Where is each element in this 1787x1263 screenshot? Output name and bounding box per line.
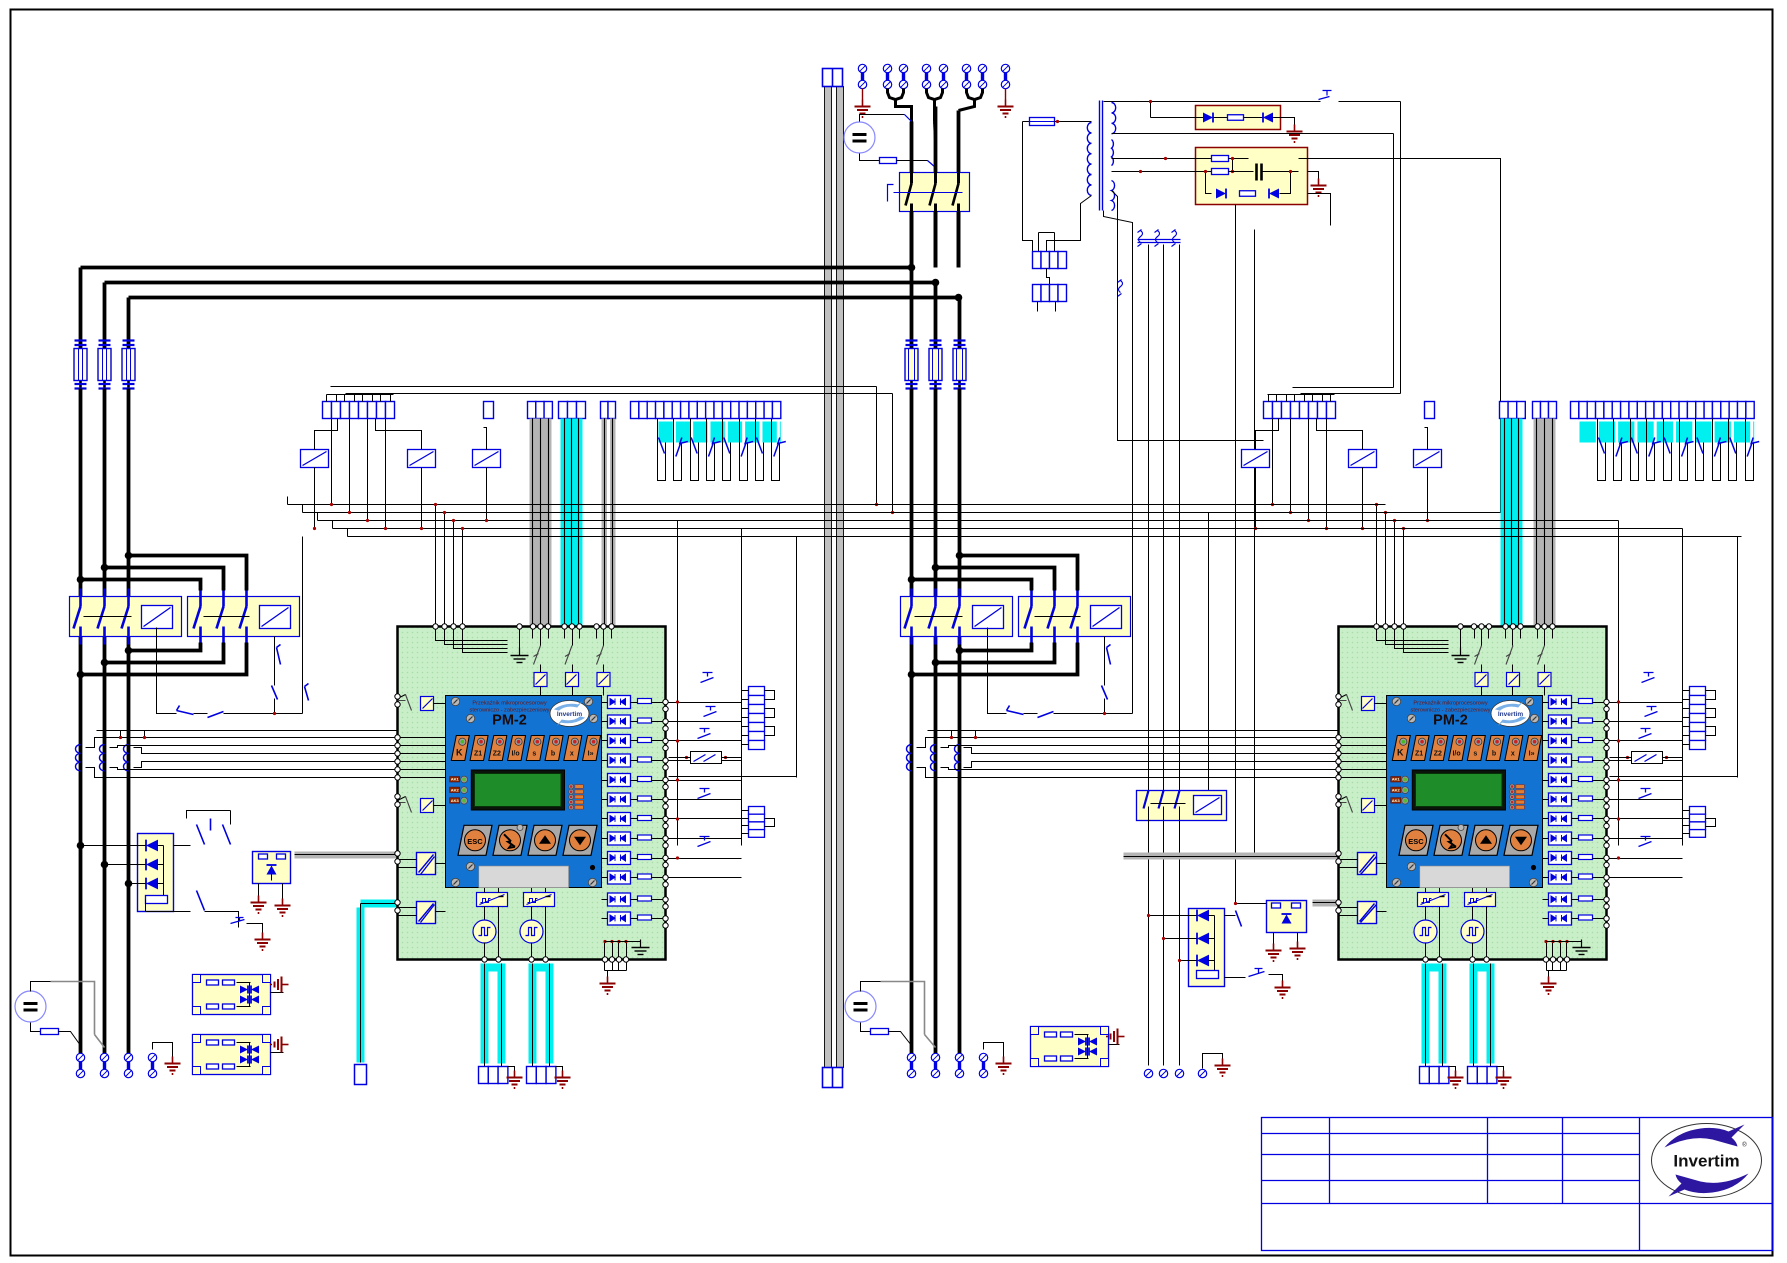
board top pin <box>1542 624 1547 629</box>
board top pin <box>594 624 599 629</box>
relay K2 <box>408 450 436 468</box>
wire O12 <box>1543 918 1549 920</box>
optocoupler O7 <box>608 813 631 826</box>
board top wire 2 <box>445 627 508 645</box>
optocoupler O8 <box>608 832 631 845</box>
board left pin <box>395 794 400 799</box>
optocoupler O4 <box>1549 754 1572 767</box>
panel label window <box>479 866 569 888</box>
board left pin <box>395 775 400 780</box>
board top wire 3 <box>1395 627 1449 649</box>
wire Z2 in2 <box>1112 171 1212 173</box>
left bundle cyan <box>559 402 568 419</box>
resistor RO12 <box>1579 915 1593 920</box>
key KB3 <box>1469 825 1503 855</box>
board right pin <box>1604 816 1609 821</box>
wire DAC2 feed <box>1472 888 1474 893</box>
diode DD3 <box>1197 955 1209 967</box>
svg-text:®: ® <box>1742 1142 1747 1149</box>
wire tie L1 <box>81 266 912 270</box>
wire O2 <box>602 721 608 723</box>
svg-text:b: b <box>551 751 555 758</box>
resistor RO6 <box>638 796 652 801</box>
junction node L2 <box>932 279 940 287</box>
board bundle wires <box>1474 627 1476 639</box>
resistor RZ1 <box>1228 115 1244 121</box>
bus-section breaker QA <box>70 597 182 637</box>
button B1 <box>451 736 469 761</box>
wire CT3 sec bottom <box>964 762 1339 768</box>
svg-text:I»: I» <box>588 751 594 758</box>
wire bypass bottom 1 <box>960 643 1032 651</box>
external switch T <box>698 789 711 799</box>
board top pin <box>1486 624 1491 629</box>
panel LED AK1 <box>450 777 460 783</box>
wire DAC1 feed <box>484 888 486 893</box>
board top pin <box>1458 624 1463 629</box>
diode DD3 <box>146 878 158 890</box>
board top pin <box>1479 624 1484 629</box>
board top pin <box>562 624 567 629</box>
earth Z2 <box>1308 172 1319 179</box>
terminal XT1 <box>1144 1069 1152 1077</box>
board bottom pins <box>529 957 534 962</box>
stack2 wire 4 <box>1683 833 1690 835</box>
external stub 3 <box>669 740 742 742</box>
wire O10 <box>602 877 608 879</box>
resistor RO2 <box>1579 718 1593 723</box>
breaker Q0 trip linkage <box>888 185 894 202</box>
right opto earths <box>1273 933 1275 944</box>
key indicator <box>1458 825 1464 831</box>
loop switch LS9 <box>1729 419 1737 481</box>
board gnd cluster <box>604 942 606 960</box>
terminal X4 <box>922 64 930 88</box>
terminal X5 <box>939 64 947 88</box>
board analog iso AI2 <box>417 902 436 924</box>
wire K2 drop <box>421 468 423 529</box>
optocoupler O12 <box>1549 912 1572 925</box>
panel LED R5 <box>569 805 574 810</box>
board iso U1 <box>1475 673 1488 687</box>
wire CT1 sec top <box>917 738 1339 748</box>
wire above-connector bus L <box>331 386 877 388</box>
terminal X7 <box>978 64 986 88</box>
stack1 wire 3 <box>1683 708 1690 710</box>
wire K2 drop <box>1362 468 1364 529</box>
loop switch LS8 <box>772 419 780 481</box>
button B6 <box>545 736 563 761</box>
wire bus to board pin 1 <box>435 505 437 627</box>
right gray cable long <box>1124 853 1339 860</box>
panel LCD display <box>1412 770 1505 810</box>
svg-text:Przekaźnik mikroprocesorowy: Przekaźnik mikroprocesorowy <box>472 701 546 707</box>
panel logo <box>1491 701 1530 727</box>
stack1 wire 4 <box>742 717 749 719</box>
stack2 hook <box>765 819 775 827</box>
external stub 1 <box>669 702 742 704</box>
cyan output bundle <box>1470 964 1495 972</box>
wire XT1 stub <box>1047 269 1050 285</box>
wire O11 <box>1543 899 1549 901</box>
wire CA drop 3 <box>367 419 369 521</box>
cyan output earth <box>1497 1067 1504 1071</box>
external switch T <box>1642 673 1655 683</box>
resistor RO7 <box>1579 816 1593 821</box>
board top pin <box>569 624 574 629</box>
external long wire y150 <box>669 776 797 778</box>
terminal XB3 <box>955 1053 963 1077</box>
board ct wire 5 <box>1339 769 1387 771</box>
optocoupler O5 <box>608 774 631 787</box>
left diode lower switch <box>146 900 191 912</box>
board left pin <box>395 759 400 764</box>
terminal XB4 <box>148 1053 156 1077</box>
svg-text:Z2: Z2 <box>493 751 501 758</box>
transformer T1 primary <box>1087 123 1091 196</box>
wire O8 <box>1543 838 1549 840</box>
wire DD join <box>1214 916 1216 961</box>
aux relay box QC right <box>1137 791 1227 821</box>
board DAC U4 <box>1418 893 1449 907</box>
external switch T <box>1639 837 1652 847</box>
wire bus5 <box>348 536 1742 538</box>
cyan output bundle <box>529 964 554 972</box>
left trip riser <box>302 537 304 714</box>
wire bus to board pin 2 <box>1385 513 1387 627</box>
loop switch LS10 <box>1746 419 1754 481</box>
optocoupler O11 <box>608 893 631 906</box>
busbar bottom terminal X0b <box>823 1068 843 1088</box>
optocoupler O7 <box>1549 813 1572 826</box>
loop switch LS3 <box>1631 419 1639 481</box>
board left pin <box>1336 859 1341 864</box>
panel LED R4 <box>1510 800 1515 805</box>
terminal XB1 <box>907 1053 915 1077</box>
stack1 hook 2 <box>765 709 775 718</box>
wire K2 feed <box>1317 419 1363 450</box>
board top pin <box>517 624 522 629</box>
board left switch SA2 <box>1339 797 1353 813</box>
PM-2 front panel <box>446 696 602 888</box>
board left pin <box>395 802 400 807</box>
board transducer P2 <box>1472 907 1474 921</box>
button B4 <box>1449 736 1467 761</box>
button B8 <box>1524 736 1542 761</box>
diode DD2 <box>146 859 158 871</box>
right bundle gray <box>1533 402 1541 419</box>
wire CT1 sec bottom <box>86 768 398 778</box>
wire phase L2 mid <box>103 389 107 597</box>
loop switch LS4 <box>707 419 715 481</box>
resistor RO11 <box>1579 896 1593 901</box>
loop switch LS2 <box>674 419 682 481</box>
fuse F2 <box>103 340 106 390</box>
panel LED R1 <box>569 784 574 789</box>
dc source G1 <box>844 122 875 153</box>
panel LED R1 <box>1510 784 1515 789</box>
external stub 4 <box>669 760 742 762</box>
fuse F3 <box>127 340 130 390</box>
wire phase L3 mid <box>127 389 131 597</box>
board left pin <box>1336 767 1341 772</box>
board ct wire 3 <box>398 753 446 755</box>
board analog iso AI1 <box>1358 853 1377 875</box>
wire phase L1 mid <box>910 389 914 597</box>
left opto earths <box>258 884 260 896</box>
left aux opto unit 2 <box>193 1035 271 1075</box>
relay K3 <box>473 450 501 468</box>
board right pin <box>1604 916 1609 921</box>
fuse F1 <box>79 340 82 390</box>
board left pin <box>395 751 400 756</box>
wire O4 <box>1543 760 1549 762</box>
board left switch SA1 <box>398 695 412 711</box>
bus-section breaker QA <box>901 597 1013 637</box>
resistor RO5 <box>1579 777 1593 782</box>
busbar top terminal X0 <box>823 69 843 87</box>
stack1 wire 2 <box>1683 699 1690 701</box>
svg-text:I»: I» <box>1529 751 1535 758</box>
external stub 7 <box>669 818 742 820</box>
external switch T <box>1639 729 1652 739</box>
wire QC drops <box>1148 821 1150 1066</box>
resistor RO8 <box>638 835 652 840</box>
external stub 10 <box>669 877 742 879</box>
wire sec drop t3 <box>1179 245 1181 791</box>
loop switch LS4 <box>1647 419 1655 481</box>
board left pin <box>1336 694 1341 699</box>
svg-text:K: K <box>456 748 463 758</box>
svg-text:PM-2: PM-2 <box>492 713 527 729</box>
connector strip CB <box>631 402 639 419</box>
left aux opto unit 1 <box>193 975 271 1015</box>
board ct wire 3 <box>1339 753 1387 755</box>
wire K3 feed <box>1425 428 1428 450</box>
external connector stack 1 <box>1690 687 1706 696</box>
board ct wire 6 <box>398 777 446 779</box>
svg-text:AK3: AK3 <box>1392 798 1401 803</box>
board top wire 3 <box>454 627 508 649</box>
svg-text:x: x <box>1511 751 1515 758</box>
board right pin <box>1604 699 1609 704</box>
board top pin <box>1401 624 1406 629</box>
resistor RO2 <box>638 718 652 723</box>
stack2 wire 1 <box>1683 810 1690 812</box>
wire bus2 <box>303 512 1461 514</box>
board right pin <box>1604 758 1609 763</box>
wire sec drop t2 <box>1163 245 1165 791</box>
right trip wire <box>988 628 1007 714</box>
board analog iso AI1 <box>417 853 436 875</box>
board bundle wires <box>532 627 534 639</box>
dc source G2 <box>845 991 876 1022</box>
external stub 1 <box>1610 702 1683 704</box>
board right pin <box>663 699 668 704</box>
cyan output earth <box>508 1067 515 1071</box>
optocoupler O8 <box>1549 832 1572 845</box>
wire CT aux pair <box>97 730 398 732</box>
left trip wire <box>157 628 177 714</box>
external stub 5 <box>669 780 742 782</box>
optocoupler O9 <box>1549 852 1572 865</box>
resistor RO12 <box>638 915 652 920</box>
optocoupler O1 <box>608 696 631 709</box>
resistor RO3 <box>1579 738 1593 743</box>
resistor RO10 <box>638 874 652 879</box>
wire bypass top 2 <box>105 568 224 591</box>
board top pin <box>545 624 550 629</box>
wire XT4 earth <box>1203 1054 1223 1069</box>
wire sec drop v2 <box>1104 211 1133 521</box>
board left pin <box>1336 751 1341 756</box>
wire O3 <box>602 740 608 742</box>
board ct wire 2 <box>1339 745 1387 747</box>
board top pin <box>460 624 465 629</box>
resistor RO3 <box>638 738 652 743</box>
stack2 wire 2 <box>742 818 749 820</box>
stack2 hook <box>1706 819 1716 827</box>
external stub 8 <box>669 838 742 840</box>
board right pin <box>663 777 668 782</box>
PCB board outline <box>1339 627 1607 960</box>
board left pin <box>1336 794 1341 799</box>
wire bus4 <box>333 528 1683 530</box>
wire K2 feed <box>376 419 422 450</box>
fuse F3 <box>958 340 961 390</box>
button B7 <box>564 736 582 761</box>
board top pin <box>1383 624 1388 629</box>
external switch T <box>698 837 711 847</box>
board left pin <box>395 694 400 699</box>
wire XB4 earth <box>984 1043 1004 1057</box>
board top pin <box>1550 624 1555 629</box>
panel LED R4 <box>569 800 574 805</box>
wire bypass top 1 <box>960 556 1078 591</box>
board top pin <box>530 624 535 629</box>
wire CA drop 4 <box>385 419 387 529</box>
svg-text:Invertim: Invertim <box>557 711 583 718</box>
key KB3 <box>528 825 562 855</box>
current transformer CT3 <box>124 745 129 771</box>
board top pin <box>451 624 456 629</box>
wire K3 drop <box>486 468 488 521</box>
external switch T <box>704 707 717 717</box>
board ct wire 6 <box>1339 777 1387 779</box>
board right pin <box>1604 797 1609 802</box>
terminal XB1 <box>76 1053 84 1077</box>
external stub 10 <box>1610 877 1683 879</box>
stack2 wire 3 <box>1683 825 1690 827</box>
board top pin <box>577 624 582 629</box>
transformer T1 core <box>1099 101 1101 211</box>
board input switch SW3 <box>1544 627 1546 646</box>
board iso U3 <box>597 673 610 687</box>
left cyan terminal <box>355 1065 367 1085</box>
board ct wire 4 <box>1339 761 1387 763</box>
filter unit Z2 <box>1196 148 1308 205</box>
stack1 wire 7 <box>1683 744 1690 746</box>
board transducer P2 <box>531 907 533 921</box>
wire bus to board pin 1 <box>1376 505 1378 627</box>
cyan output earth <box>1449 1067 1456 1071</box>
wire bypass top 3 <box>81 580 201 591</box>
loop switch LS1 <box>658 419 666 481</box>
external switch T <box>1639 789 1652 799</box>
board external verticals <box>1618 521 1620 846</box>
connector XT2 <box>1033 285 1042 302</box>
board top pin <box>1518 624 1523 629</box>
svg-text:Z1: Z1 <box>1415 751 1423 758</box>
wire CA drop 4 <box>1326 419 1328 529</box>
transformer T1 secondary3 <box>1112 181 1115 211</box>
loop switch LS5 <box>1664 419 1672 481</box>
bus overlay <box>521 504 1386 506</box>
optocoupler O10 <box>1549 871 1572 884</box>
external stub 7 <box>1610 818 1683 820</box>
button B4 <box>508 736 526 761</box>
board input switch SW2 <box>572 627 574 646</box>
stack1 wire 7 <box>742 744 749 746</box>
optocoupler O3 <box>608 735 631 748</box>
board ct wire 2 <box>398 745 446 747</box>
svg-text:AK2: AK2 <box>451 787 460 792</box>
external stub 6 <box>1610 799 1683 801</box>
connector XT1 <box>1033 252 1042 269</box>
wire phase L1 mid <box>79 389 83 597</box>
board left pin <box>395 735 400 740</box>
loop switch LS7 <box>756 419 764 481</box>
resistor RO9 <box>638 855 652 860</box>
wire O10 <box>1543 877 1549 879</box>
current transformer CT2 <box>931 745 936 771</box>
board right pin <box>663 816 668 821</box>
wire CT3 sec top <box>964 748 1339 754</box>
board top pin <box>1374 624 1379 629</box>
board iso U3 <box>1538 673 1551 687</box>
board left pin <box>1336 759 1341 764</box>
cyan output connector <box>479 1067 489 1084</box>
stack1 wire 5 <box>1683 726 1690 728</box>
board right pin <box>663 758 668 763</box>
key KB1 <box>1399 825 1433 855</box>
wire CA drop 2 <box>349 419 351 513</box>
right feeder top verticals <box>910 122 914 268</box>
terminal XB2 <box>931 1053 939 1077</box>
stack2 wire 3 <box>742 825 749 827</box>
circuit breaker Q0 <box>900 173 970 212</box>
stack1 wire 1 <box>742 690 749 692</box>
loop switch LS8 <box>1713 419 1721 481</box>
wire T1 primary bottom <box>1047 196 1092 252</box>
wire Z2 right loop <box>1209 159 1501 791</box>
wire O4 <box>602 760 608 762</box>
board left pin <box>1336 743 1341 748</box>
button B1 <box>1392 736 1410 761</box>
panel LED AK3 <box>450 798 460 804</box>
key KB4 <box>1504 825 1538 855</box>
wire O2 <box>1543 721 1549 723</box>
loop switch LS7 <box>1696 419 1704 481</box>
optocoupler O6 <box>608 793 631 806</box>
resistor RO10 <box>1579 874 1593 879</box>
right optocoupler unit <box>1267 901 1307 933</box>
board top wire 1 <box>1377 627 1449 641</box>
cyan output connector <box>1468 1067 1478 1084</box>
board left pin <box>395 900 400 905</box>
diode D1 <box>1203 113 1213 123</box>
wire secondary1 top <box>1104 101 1321 103</box>
